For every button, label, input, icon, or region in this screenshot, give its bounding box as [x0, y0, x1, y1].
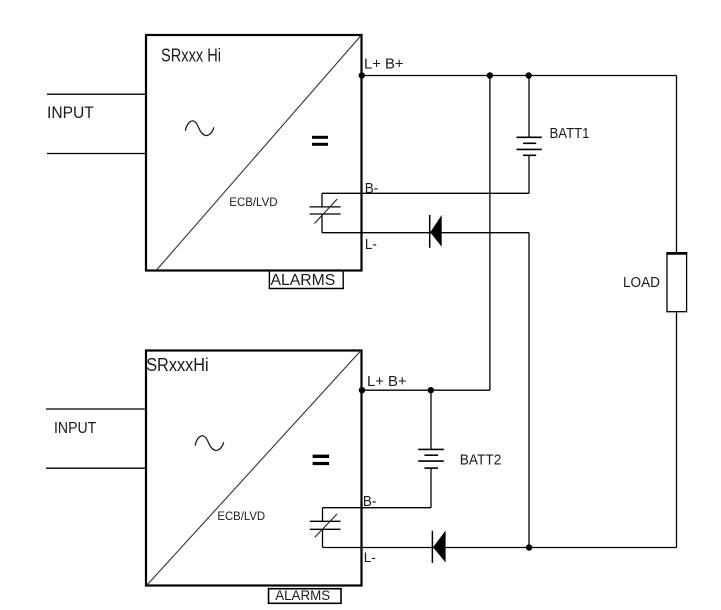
svg-text:LOAD: LOAD — [623, 274, 660, 291]
svg-text:BATT2: BATT2 — [460, 452, 502, 469]
svg-text:L+ B+: L+ B+ — [367, 373, 407, 390]
svg-text:SRxxx Hi: SRxxx Hi — [161, 46, 221, 66]
svg-text:B-: B- — [365, 180, 379, 197]
svg-text:ECB/LVD: ECB/LVD — [217, 509, 265, 523]
svg-text:ALARMS: ALARMS — [275, 588, 330, 603]
svg-text:INPUT: INPUT — [54, 420, 96, 437]
svg-text:L-: L- — [364, 549, 376, 565]
svg-text:BATT1: BATT1 — [550, 125, 590, 142]
svg-text:ECB/LVD: ECB/LVD — [229, 195, 278, 209]
svg-text:B-: B- — [363, 493, 377, 510]
svg-text:SRxxxHi: SRxxxHi — [146, 355, 209, 375]
svg-text:L-: L- — [365, 237, 377, 253]
svg-text:L+ B+: L+ B+ — [364, 56, 404, 73]
svg-text:INPUT: INPUT — [47, 103, 94, 122]
svg-text:ALARMS: ALARMS — [271, 272, 336, 289]
